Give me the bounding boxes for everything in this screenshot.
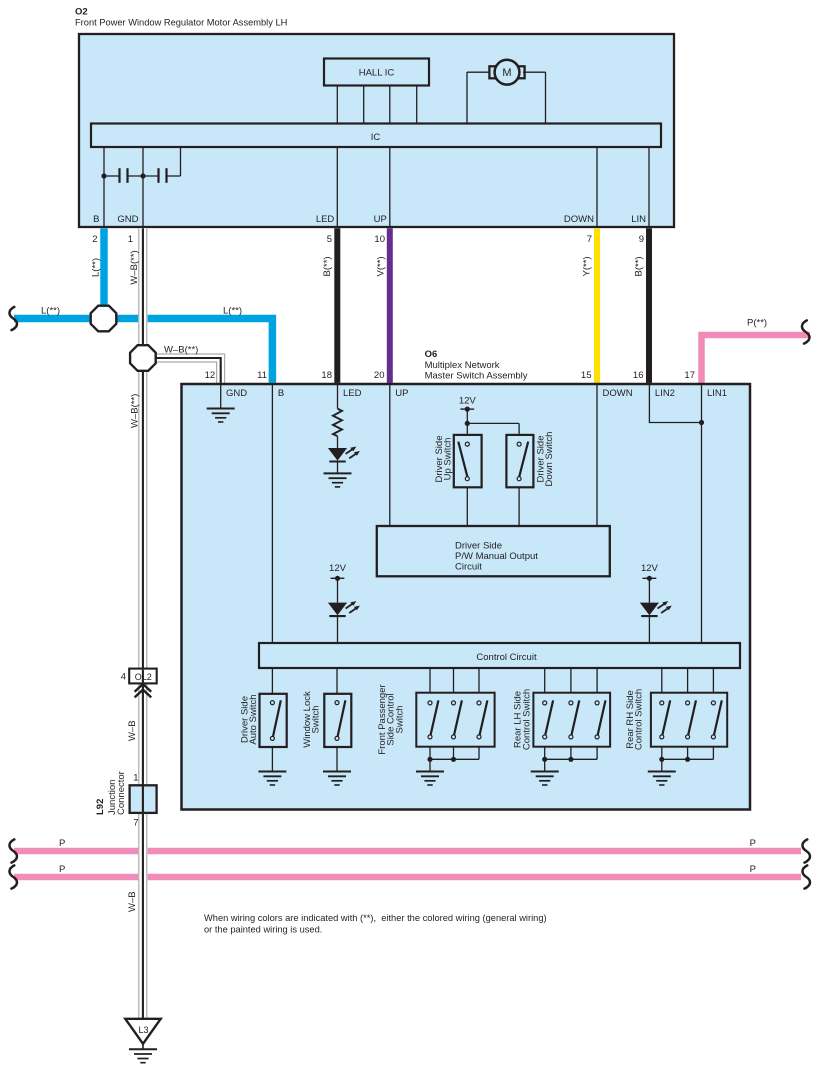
block Driver Side P/W Manual Output Circuit (377, 526, 610, 576)
svg-text:10: 10 (374, 234, 385, 245)
svg-text:B(**): B(**) (634, 256, 645, 276)
svg-text:Circuit: Circuit (455, 562, 482, 573)
svg-text:Driver SideUp Switch: Driver SideUp Switch (434, 436, 454, 483)
resistor R1 (333, 409, 342, 437)
wire-break squiggle right pink upper (802, 839, 810, 862)
svg-text:Driver SideAuto Switch: Driver SideAuto Switch (240, 694, 260, 744)
svg-text:L(**): L(**) (223, 306, 242, 317)
svg-text:LIN: LIN (631, 214, 646, 225)
svg-text:W–B: W–B (127, 891, 138, 912)
wire window lock to ground (336, 747, 338, 772)
svg-text:16: 16 (633, 370, 644, 381)
switch box Driver Side Auto Switch (260, 694, 287, 747)
wire pin 18 LED to resistor (337, 385, 339, 409)
svg-text:P: P (59, 864, 65, 875)
svg-text:L92: L92 (95, 799, 106, 815)
svg-text:V(**): V(**) (376, 256, 387, 276)
svg-text:Y(**): Y(**) (582, 256, 593, 276)
wire IC to capacitor branch (180, 147, 182, 176)
svg-text:9: 9 (639, 234, 644, 245)
svg-text:LED: LED (316, 214, 335, 225)
12V tick led right (643, 577, 657, 579)
wire L blue horizontal to pin 11 (14, 319, 272, 383)
ground triangle L3 (125, 1019, 160, 1044)
ground below auto switch (258, 772, 286, 786)
wire control to auto switch (271, 668, 273, 694)
wire hall-ic pin 4 (416, 86, 418, 124)
svg-text:P: P (750, 864, 756, 875)
wire hall-ic pin 2 (363, 86, 365, 124)
svg-text:11: 11 (257, 370, 267, 381)
svg-text:Rear RH SideControl Switch: Rear RH SideControl Switch (625, 689, 645, 750)
switch box Driver Side Up Switch (454, 435, 482, 487)
wire pin 15 DOWN to P/W circuit (596, 385, 598, 526)
wire motor right leg (545, 72, 547, 124)
switch box Rear LH Side Control Switch (533, 693, 610, 747)
wire B black from pin 9 (646, 228, 652, 383)
svg-text:15: 15 (581, 370, 592, 381)
svg-text:12V: 12V (641, 563, 659, 574)
12V terminal tick (460, 408, 474, 410)
wires Rear RH Side Control Switch commoning (661, 747, 663, 760)
svg-text:IC: IC (371, 132, 381, 143)
component box O6 Multiplex Network Master Switch Assembly (182, 384, 751, 810)
svg-text:W–B(**): W–B(**) (129, 250, 140, 284)
switch box Rear RH Side Control Switch (651, 693, 727, 747)
motor M (467, 60, 546, 85)
wire Front Passenger Side Control Switch to ground (429, 759, 431, 771)
wire auto switch to ground (271, 747, 273, 772)
svg-text:DOWN: DOWN (564, 214, 594, 225)
node 12V terminal (465, 407, 470, 412)
ground below window lock (323, 772, 351, 786)
svg-text:UP: UP (395, 388, 408, 399)
wire pin 20 UP to P/W circuit (389, 385, 391, 526)
wire-break squiggle left pink lower (9, 865, 17, 888)
svg-text:When wiring colors are indicat: When wiring colors are indicated with (*… (204, 913, 547, 923)
svg-text:P(**): P(**) (747, 318, 767, 329)
ground below LED1 (324, 473, 352, 487)
switch Driver Side Down (517, 442, 521, 446)
wire LED1 to ground (337, 462, 339, 474)
wire up switch to P/W circuit (466, 487, 468, 526)
wire-break squiggle left blue (9, 307, 17, 330)
block HALL IC (324, 59, 429, 86)
wire-break squiggle left pink upper (9, 839, 17, 862)
wire IC to pin UP (389, 147, 391, 227)
wire L3 to ground (142, 1044, 144, 1049)
svg-text:Front Power Window Regulator M: Front Power Window Regulator Motor Assem… (75, 18, 287, 28)
svg-text:Master Switch Assembly: Master Switch Assembly (425, 371, 528, 382)
svg-text:B: B (278, 388, 284, 399)
svg-text:1: 1 (128, 234, 133, 245)
wire motor left leg (466, 72, 468, 124)
svg-text:1: 1 (133, 773, 138, 784)
svg-text:UP: UP (374, 214, 387, 225)
wire IC to pin LIN (648, 147, 650, 227)
svg-text:20: 20 (374, 370, 385, 381)
LED D2 (328, 601, 360, 616)
capacitor C1 (104, 175, 120, 177)
splice octagon on L wire (91, 306, 117, 332)
svg-text:DOWN: DOWN (603, 388, 633, 399)
ground below Front Passenger Side Control Switch (416, 772, 444, 786)
svg-text:M: M (502, 67, 511, 79)
svg-text:L3: L3 (138, 1025, 148, 1035)
wire W-B from pin 1 down to L3 (138, 228, 148, 1018)
wire 12V to LED3 (648, 578, 650, 602)
12V tick led left (331, 577, 345, 579)
wires Front Passenger Side Control Switch commoning (429, 747, 431, 760)
wire LED3 to control circuit (648, 616, 650, 643)
wire 12V to LED2 (337, 578, 339, 602)
ground below Rear LH Side Control Switch (531, 772, 559, 786)
switch Window Lock (335, 700, 345, 740)
svg-text:L(**): L(**) (91, 258, 102, 277)
svg-text:12V: 12V (329, 563, 347, 574)
switches Rear RH Side Control Switch (660, 700, 670, 739)
wire resistor to LED1 (337, 436, 339, 448)
wire Rear RH Side Control Switch to ground (661, 759, 663, 771)
svg-text:O6: O6 (425, 349, 438, 360)
node branch to down switch (465, 421, 470, 426)
svg-text:GND: GND (226, 388, 247, 399)
svg-text:O2: O2 (75, 7, 88, 18)
wire W-B through junction box (142, 785, 144, 813)
wires Rear LH Side Control Switch commoning (544, 747, 546, 760)
svg-text:Connector: Connector (116, 771, 127, 815)
svg-text:Rear LH SideControl Switch: Rear LH SideControl Switch (513, 689, 533, 750)
svg-text:4: 4 (121, 672, 126, 683)
switches Front Passenger Side Control Switch (428, 700, 438, 739)
svg-text:or the painted wiring is used.: or the painted wiring is used. (204, 925, 322, 935)
wire hall-ic pin 3 (389, 86, 391, 124)
svg-text:17: 17 (684, 370, 695, 381)
wire hall-ic pin 1 (336, 86, 338, 124)
switch box Front Passenger Side Control Switch (416, 693, 494, 747)
switch Driver Side Auto (270, 700, 280, 740)
wire branch to up switch (466, 423, 468, 435)
wire IC to pin B (103, 147, 105, 227)
block IC (91, 124, 661, 148)
node capacitor junction on GND line (140, 173, 145, 178)
wire-break squiggle right pink lower (802, 865, 810, 888)
wire LED2 to control circuit (337, 616, 339, 643)
svg-text:HALL IC: HALL IC (359, 68, 395, 79)
svg-text:L(**): L(**) (41, 306, 60, 317)
svg-text:12: 12 (205, 370, 216, 381)
junction connector L92 box (130, 785, 157, 813)
switch box Window Lock Switch (324, 694, 351, 747)
svg-text:OL2: OL2 (135, 672, 152, 682)
wires control to Front Passenger Side Control Switch (429, 668, 431, 693)
svg-text:LED: LED (343, 388, 362, 399)
wire branch to down switch (467, 422, 519, 424)
svg-text:B: B (93, 214, 99, 225)
svg-text:LIN1: LIN1 (707, 388, 727, 399)
ground L3 (129, 1049, 157, 1063)
LED D1 (328, 447, 360, 462)
wire Rear LH Side Control Switch to ground (544, 759, 546, 771)
wire IC to pin GND (142, 147, 144, 227)
svg-text:Driver Side: Driver Side (455, 541, 502, 552)
svg-text:GND: GND (117, 214, 138, 225)
ground at pin 12 (207, 409, 235, 423)
wire pin 16 LIN2 elbow (649, 385, 701, 423)
svg-text:P: P (59, 838, 65, 849)
wire Y yellow from pin 7 (594, 228, 600, 383)
svg-text:W–B(**): W–B(**) (164, 345, 198, 356)
wires control to Rear LH Side Control Switch (544, 668, 546, 693)
component box O2 Front Power Window Regulator Motor Assembly LH (79, 34, 674, 227)
wire pin 11 B to control circuit (271, 385, 273, 643)
svg-text:7: 7 (587, 234, 592, 245)
wire 12V down to branch (466, 409, 468, 423)
wire P pink to pin 17 (702, 335, 811, 383)
svg-text:18: 18 (321, 370, 332, 381)
node LIN junction (699, 420, 704, 425)
node capacitor junction on B line (101, 173, 106, 178)
wire V purple from pin 10 (387, 228, 393, 383)
switch box Driver Side Down Switch (506, 435, 533, 487)
wire P pink bus lower (14, 874, 801, 881)
capacitor C2 (157, 168, 159, 183)
svg-text:Driver SideDown Switch: Driver SideDown Switch (536, 432, 556, 487)
wire control to window lock switch (336, 668, 338, 694)
svg-text:B(**): B(**) (322, 256, 333, 276)
svg-text:W–B(**): W–B(**) (129, 394, 140, 428)
svg-text:5: 5 (327, 234, 332, 245)
wire P pink bus upper (14, 848, 801, 855)
connector OL2 (129, 669, 157, 684)
svg-text:P/W Manual Output: P/W Manual Output (455, 551, 538, 562)
node 12V led left (335, 576, 340, 581)
svg-text:LIN2: LIN2 (655, 388, 675, 399)
wire pin 17 LIN1 to control circuit (701, 385, 703, 643)
wire B black from pin 5 (334, 228, 340, 383)
svg-text:7: 7 (133, 818, 138, 829)
node 12V led right (647, 576, 652, 581)
svg-text:2: 2 (92, 234, 97, 245)
svg-text:Multiplex Network: Multiplex Network (425, 360, 500, 371)
wire down switch to P/W circuit (518, 487, 520, 526)
svg-text:Control Circuit: Control Circuit (476, 652, 537, 663)
svg-text:W–B: W–B (127, 720, 138, 741)
wire IC to pin LED (336, 147, 338, 227)
switch Driver Side Up (465, 442, 469, 446)
LED D3 (640, 601, 672, 616)
shield chevrons (135, 684, 152, 692)
svg-text:12V: 12V (459, 396, 477, 407)
wires control to Rear RH Side Control Switch (661, 668, 663, 693)
wire pin 12 to ground (220, 385, 222, 409)
ground below Rear RH Side Control Switch (648, 772, 676, 786)
wire W-B horizontal splice to pin 12 (155, 358, 221, 384)
svg-text:P: P (750, 838, 756, 849)
switches Rear LH Side Control Switch (543, 700, 553, 739)
block Control Circuit (259, 643, 740, 668)
wire IC to pin DOWN (596, 147, 598, 227)
wire-break squiggle right pink (802, 320, 810, 343)
splice octagon on W-B wire (130, 345, 156, 371)
wire L blue from pin 2 (100, 228, 108, 318)
